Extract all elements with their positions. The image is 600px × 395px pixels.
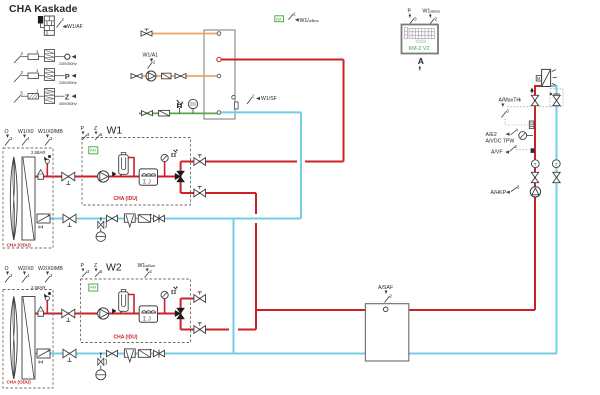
relay row O 230V: [14, 49, 77, 66]
svg-text:AM: AM: [90, 285, 96, 290]
pump A/HKP: [491, 185, 541, 198]
3-way valve W1: [175, 171, 185, 182]
node tank port top (orange): [217, 32, 221, 36]
node tank port bottom (green/blue): [217, 111, 221, 115]
svg-text:2,5BAR: 2,5BAR: [31, 150, 45, 155]
safety valve W1: [172, 153, 176, 157]
valve W1 supply shutoff: [62, 172, 75, 181]
svg-text:A: A: [418, 56, 424, 66]
pump W1/A1 circulation pump: [143, 53, 159, 82]
pressure gauge W2: [164, 298, 166, 314]
tank W1 (DHW cylinder): [204, 30, 235, 119]
wire red riser up to tank line: [343, 60, 345, 162]
wire blue W2 bottom return header: [35, 353, 557, 355]
svg-text:CHA Kaskade: CHA Kaskade: [9, 3, 78, 15]
wire red W2 ODU supply: [35, 313, 181, 315]
dirt trap funnel W1 return: [124, 214, 135, 227]
valve circulation line left: [131, 74, 142, 79]
valve orange top line: [141, 29, 152, 36]
wire red W2 top branch stub: [181, 298, 206, 300]
svg-text:M: M: [537, 76, 541, 81]
pressure gauge W1: [164, 161, 166, 177]
thermometer cold water: [188, 99, 197, 113]
valve A supply lower: [531, 172, 538, 182]
wire green cold water line: [139, 112, 219, 114]
valve W1 return shutoff: [63, 214, 76, 223]
valve W2 bottom branch: [194, 323, 206, 334]
heat exchanger ODU1: [22, 157, 35, 240]
drain and expansion vessel W2 return: [96, 353, 107, 380]
dirt trap funnel W2 return: [124, 349, 135, 362]
flow arrow W2: [113, 309, 116, 313]
svg-text:W1/A1: W1/A1: [143, 53, 159, 59]
wire red W1 3-way riser: [180, 162, 182, 194]
svg-text:P: P: [408, 9, 412, 15]
svg-text:W1/AF: W1/AF: [67, 24, 83, 30]
svg-text:A/VDC TPW: A/VDC TPW: [486, 139, 515, 145]
svg-text:230V/50Hz: 230V/50Hz: [59, 62, 77, 66]
label A/E2 A/VDC TPW: [486, 128, 519, 145]
svg-text:230V/50Hz: 230V/50Hz: [59, 81, 77, 85]
flow arrow supply riser: [531, 88, 534, 93]
heat meter W2: [139, 306, 157, 322]
flow arrow W1: [113, 172, 116, 176]
filter circulation line: [162, 73, 172, 79]
heat pump indoor unit W1 CHA (IDU): [81, 125, 191, 206]
wire orange tank top line: [141, 33, 219, 35]
controller KM-2 V2: [402, 9, 441, 71]
fan coil / air heater A: [531, 69, 557, 93]
wire red heating supply header to A/SAF and right circuit: [256, 309, 535, 311]
valve A/MaxTH supply: [531, 95, 538, 105]
svg-text:O: O: [5, 129, 9, 135]
svg-text:Z: Z: [94, 126, 97, 132]
svg-text:P: P: [81, 126, 85, 132]
svg-text:CHA (ODU): CHA (ODU): [7, 243, 32, 248]
svg-text:Z: Z: [65, 93, 70, 102]
hydraulic separator A/SAF: [365, 285, 408, 361]
svg-text:AM: AM: [90, 148, 96, 153]
svg-text:CHA (ODU): CHA (ODU): [7, 380, 32, 385]
valve W1 return line: [107, 215, 118, 221]
check valve W2 return: [37, 349, 50, 358]
motor M fan coil: [536, 76, 541, 82]
sensor W1/SF pocket on tank: [232, 94, 277, 110]
relay row Z 400V: [14, 89, 77, 107]
relay row P 230V: [14, 68, 77, 85]
heat meter W1: [139, 169, 157, 185]
node tank port charge (red): [217, 57, 221, 61]
heat pump indoor unit W2 CHA (IDU): [81, 262, 191, 343]
svg-text:KM: KM: [276, 17, 281, 21]
label A/MaxTH: [499, 98, 557, 126]
svg-text:W1/X0/MB: W1/X0/MB: [38, 129, 63, 135]
svg-text:2,5BAR: 2,5BAR: [31, 285, 45, 290]
wire orange circulation line W1/A1: [131, 75, 220, 77]
expansion connector ODU1: [38, 174, 43, 179]
valve W2 return line: [107, 350, 118, 356]
thermometer A supply: [531, 160, 539, 168]
wire blue W1 return header: [37, 218, 301, 220]
svg-text:Σ J: Σ J: [143, 317, 151, 323]
fan blade ODU2: [10, 297, 17, 380]
air separator W1: [120, 174, 122, 176]
3-way valve W2: [175, 308, 185, 319]
wire red W1 bottom branch: [181, 192, 256, 194]
fan blade ODU1: [10, 157, 17, 240]
heat pump outdoor unit W1 CHA (ODU): [3, 129, 76, 248]
wire red W1 ODU supply: [35, 176, 181, 178]
valve A return lower: [553, 172, 560, 182]
module AM W1: [89, 147, 98, 154]
sensor pocket A supply: [529, 121, 534, 129]
valve W2 top branch: [194, 292, 206, 303]
filter W2 return: [138, 349, 151, 358]
svg-text:W1/X0: W1/X0: [18, 129, 34, 135]
wire blue riser tank to W1 header: [300, 112, 302, 218]
air separator W2: [120, 311, 122, 313]
wire red W2 bottom branch connect: [181, 329, 256, 331]
valve W1 top branch: [194, 155, 206, 166]
wire red W1 top branch to tank riser (gap at blue crossing): [181, 161, 344, 163]
valve A/MaxTH return (with actuator): [550, 89, 563, 107]
node tank port circulation (orange): [217, 74, 221, 78]
wire red W2 3-way riser: [180, 299, 182, 330]
svg-text:A/SAF: A/SAF: [378, 285, 393, 291]
svg-text:W2/X0/MB: W2/X0/MB: [38, 266, 63, 272]
valve W2 return shutoff: [63, 349, 76, 358]
svg-text:CHA (IDU): CHA (IDU): [114, 335, 138, 341]
svg-text:400V/50Hz: 400V/50Hz: [59, 102, 77, 106]
wire blue return header from tank: [219, 111, 301, 113]
valve circulation line right: [175, 74, 186, 79]
wire red tank charge line: [219, 59, 344, 61]
pump W1: [98, 171, 109, 182]
valve W1 bottom branch: [194, 186, 206, 197]
valve W2 supply shutoff: [62, 309, 75, 318]
svg-text:P: P: [81, 263, 85, 269]
svg-text:T: T: [534, 162, 537, 168]
heat pump outdoor unit W2 CHA (ODU): [3, 266, 76, 388]
thermometer A return: [552, 160, 560, 168]
module AM W2: [89, 284, 98, 291]
svg-text:T: T: [555, 162, 558, 168]
air flow dashes: [552, 70, 557, 86]
drain and expansion vessel W1 return: [96, 218, 107, 242]
check valve W1 return line: [154, 215, 165, 223]
svg-text:A/VF: A/VF: [491, 150, 503, 156]
svg-text:A/E2: A/E2: [486, 132, 497, 138]
pump W2: [98, 308, 109, 319]
expansion connector ODU2: [38, 311, 43, 316]
drain valve cold water: [177, 100, 183, 113]
wire blue right riser to fan coil: [551, 86, 557, 354]
svg-text:CHA (IDU): CHA (IDU): [114, 196, 138, 202]
wire red riser down to heating header (gaps at blue crossings): [255, 193, 257, 330]
svg-text:W1: W1: [107, 125, 123, 137]
safety valve W2: [172, 290, 176, 294]
svg-text:P: P: [65, 72, 70, 81]
module wBus interface (green): [275, 11, 319, 23]
svg-text:O: O: [5, 266, 9, 272]
sensor W1/AF outdoor sensor: [38, 16, 82, 35]
svg-text:KM-2 V2: KM-2 V2: [409, 46, 430, 52]
svg-text:W2/X0: W2/X0: [18, 266, 34, 272]
check valve W1 return: [37, 214, 50, 223]
filter W1 return: [138, 214, 151, 223]
valve cold water line: [142, 111, 153, 116]
svg-text:A/HKP: A/HKP: [491, 190, 507, 196]
pressure gauge A/E2: [519, 132, 533, 140]
svg-text:W2: W2: [106, 262, 122, 274]
sensor A/VF on supply: [491, 144, 534, 156]
svg-text:Z: Z: [94, 263, 97, 269]
filter cold water line: [159, 110, 170, 116]
svg-text:W1/SF: W1/SF: [261, 96, 277, 102]
wire red right riser to fan coil: [535, 86, 542, 310]
check valve W2 return line: [154, 350, 165, 358]
wire blue riser W1 header to W2 header: [233, 219, 235, 354]
svg-text:A/MaxTH: A/MaxTH: [499, 98, 521, 104]
svg-text:Σ J: Σ J: [143, 180, 151, 186]
heat exchanger ODU2: [22, 297, 35, 380]
